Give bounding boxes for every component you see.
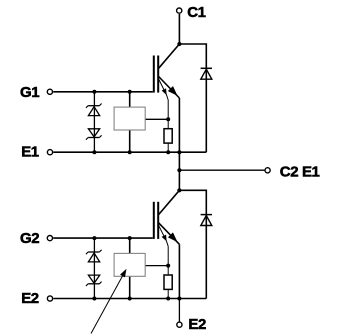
terminal C2 E1 [265,164,320,181]
zener Z1 (cathode up) [86,104,102,116]
zener Z3 (cathode up) [86,250,102,262]
wire E2 rail [53,298,206,300]
gate bar [153,56,155,93]
node G2/box [128,236,132,240]
wire zener branch [93,92,95,152]
node E1/main emitter [177,150,181,154]
wire box2 bottom [129,275,131,298]
wire G1 rail [53,91,153,93]
node G1/zener [92,90,96,94]
wire E1 rail [53,151,206,153]
box U1 (control circuit) [114,107,145,130]
wire box2 right to sense node [144,265,168,267]
zener Z2 (cathode down) [86,129,102,140]
node E1/zener [92,150,96,154]
annotation arrow to box U2 [91,269,126,333]
body bar [157,56,159,93]
node E1/box [128,150,132,154]
wire C1 down to node J1 [178,14,180,44]
wire J1 to diode D1 branch [179,44,206,68]
terminal E1 [21,144,52,161]
node G1/box [128,90,132,94]
wire: main emitter vertical of Q1 [178,98,180,152]
wire to C2 E1 terminal [179,169,264,171]
wire box1 top [129,92,131,108]
wire: sense emitter vertical of Q2 [167,246,169,298]
wire: main emitter vertical of Q2 [178,244,180,298]
svg-text:C1: C1 [187,4,205,21]
sense emitter thin arrow [159,79,169,100]
wire G2 rail [53,237,153,239]
wire to E2 terminal [178,299,180,322]
wire midpoint vertical [178,152,180,190]
wire: sense emitter vertical of Q1 [167,100,169,152]
node E2/resistor [166,297,170,301]
diode D2 (freewheel, cathode up) [201,214,212,298]
svg-text:G1: G1 [20,84,39,101]
wire box1 bottom [129,129,131,152]
node E2/zener [92,297,96,301]
node C2E1 branch [177,168,181,172]
node J1 (collector node of Q1) [177,42,181,46]
terminal E2 (bottom) [177,316,206,333]
emitter diagonal with arrow [159,77,180,99]
wire zener branch 2 [93,238,95,298]
svg-text:E1: E1 [21,144,39,161]
node E1/resistor [166,150,170,154]
node J2 (collector node of Q2) [177,188,181,192]
terminal G1 [20,84,53,101]
box U2 (control circuit) [114,253,145,276]
svg-text:E2: E2 [21,290,39,307]
node E2/main emitter [177,297,181,301]
node sense/box [166,117,170,121]
transistor Q2 (IGBT) [154,190,180,246]
node E2/box [128,297,132,301]
transistor Q1 (IGBT) [154,44,180,100]
collector diagonal [159,44,180,68]
resistor R1 [164,129,172,143]
resistor R2 [164,275,172,289]
terminal E2 (left) [21,290,52,307]
node sense/box 2 [166,264,170,268]
wire box1 right to sense node [144,118,168,120]
wire J2 to diode D2 branch [179,190,206,214]
svg-text:G2: G2 [20,230,39,247]
node G2/zener [92,236,96,240]
svg-text:E2: E2 [188,316,206,333]
wire box2 top [129,238,131,254]
terminal C1 [177,4,206,21]
zener Z4 (cathode down) [86,275,102,286]
diode D1 (freewheel, cathode up) [201,68,212,152]
svg-text:C2 E1: C2 E1 [280,164,320,181]
terminal G2 [20,230,53,247]
